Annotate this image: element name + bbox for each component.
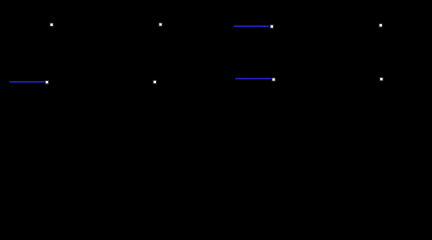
node B2 (terminal post, bottom col 2) (153, 80, 157, 84)
node B4 (terminal post, bottom col 4) (379, 77, 383, 81)
node A2 (terminal post, top col 2) (158, 22, 162, 26)
node A4 (terminal post, top col 4) (379, 23, 383, 27)
node B1 (terminal post, bottom col 1, end of wire W1) (45, 80, 49, 84)
schematic background (0, 0, 432, 119)
node A1 (terminal post, top col 1) (50, 23, 54, 27)
node B3 (terminal post, bottom col 3, end of wire W3) (272, 77, 276, 81)
wire W3 (selected net, bottom-middle) (235, 78, 271, 80)
wire W2 (selected net, top-middle) (234, 25, 269, 27)
node A3 (terminal post, top col 3, end of wire W2) (270, 24, 274, 28)
wire W1 (selected net, bottom-left) (9, 81, 44, 83)
